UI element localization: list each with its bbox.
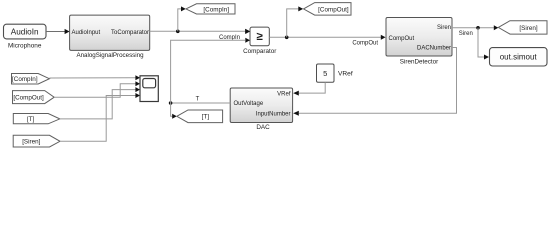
wire branch to Goto CompOut — [287, 6, 304, 37]
wire from [CompIn] to Scope port 1 — [49, 75, 140, 80]
wire Siren to out.simout — [478, 28, 489, 60]
svg-text:[CompIn]: [CompIn] — [203, 6, 229, 13]
svg-text:Microphone: Microphone — [8, 42, 42, 49]
svg-text:VRef: VRef — [277, 91, 291, 97]
svg-text:DAC: DAC — [256, 124, 270, 131]
svg-text:CompOut: CompOut — [389, 36, 415, 42]
subsystem AnalogSignalProcessing — [70, 15, 150, 50]
wire DACNumber to DAC InputNumber — [293, 48, 456, 116]
svg-text:[CompIn]: [CompIn] — [12, 76, 38, 83]
wire Siren to goto [Siren] — [452, 25, 498, 30]
svg-text:Comparator: Comparator — [243, 48, 276, 55]
svg-text:SirenDetector: SirenDetector — [400, 59, 439, 66]
goto tag [T] — [177, 110, 223, 123]
svg-text:ToComparator: ToComparator — [111, 30, 149, 36]
svg-text:T: T — [196, 96, 200, 102]
svg-text:[CompOut]: [CompOut] — [318, 6, 349, 13]
from tag [T] — [13, 114, 60, 124]
svg-text:[Siren]: [Siren] — [519, 25, 537, 32]
svg-text:out.simout: out.simout — [500, 53, 538, 62]
junction node on T wire — [169, 101, 173, 105]
wire from [CompOut] to Scope port 2 — [54, 81, 140, 97]
wire VRef constant to DAC VRef — [293, 82, 325, 95]
svg-text:CompOut: CompOut — [352, 40, 378, 46]
constant block VRef value 5 — [317, 64, 335, 82]
wire from [T] to Scope port 3 — [60, 87, 140, 119]
svg-text:InputNumber: InputNumber — [256, 111, 291, 117]
wire AudioIn to AnalogSignalProcessing — [46, 29, 70, 34]
outport block out.simout — [490, 48, 548, 66]
svg-text:[CompOut]: [CompOut] — [13, 95, 44, 102]
wire branch to Goto CompIn — [178, 6, 186, 31]
svg-text:AudioIn: AudioIn — [11, 27, 39, 36]
svg-text:VRef: VRef — [338, 71, 353, 78]
svg-text:AnalogSignalProcessing: AnalogSignalProcessing — [76, 52, 144, 59]
wire from [Siren] to Scope port 4 — [60, 93, 140, 141]
wire DAC OutVoltage (signal T) — [171, 102, 231, 104]
wire Comparator to SirenDetector — [269, 35, 385, 40]
from tag [CompIn] — [12, 74, 50, 85]
svg-text:≥: ≥ — [257, 31, 264, 43]
wire ToComparator to Comparator input 1 — [150, 29, 250, 34]
comparator block U1 — [245, 27, 269, 46]
goto tag [CompOut] — [304, 3, 352, 16]
inport block AudioIn (Microphone) — [4, 24, 47, 39]
junction node on CompOut wire — [285, 36, 289, 40]
svg-text:OutVoltage: OutVoltage — [234, 101, 264, 107]
svg-text:Siren: Siren — [459, 31, 473, 37]
svg-text:Siren: Siren — [437, 25, 451, 31]
goto tag [Siren] — [498, 21, 547, 34]
junction node on Siren wire — [476, 26, 480, 30]
from tag [Siren] — [13, 135, 60, 147]
svg-text:[T]: [T] — [202, 114, 210, 121]
from tag [CompOut] — [13, 91, 55, 104]
subsystem DAC (flipped) — [230, 88, 292, 123]
svg-text:5: 5 — [323, 69, 327, 78]
wire T to goto [T] — [171, 103, 177, 119]
subsystem SirenDetector — [386, 18, 452, 57]
svg-text:AudioInput: AudioInput — [72, 30, 101, 36]
svg-text:[T]: [T] — [27, 116, 35, 123]
scope block — [140, 76, 158, 102]
goto tag [CompIn] — [186, 4, 235, 14]
svg-text:[Siren]: [Siren] — [22, 139, 40, 146]
wire T to Comparator input 2 — [171, 40, 246, 103]
junction node on CompIn wire — [176, 30, 180, 34]
svg-text:DACNumber: DACNumber — [417, 46, 451, 52]
